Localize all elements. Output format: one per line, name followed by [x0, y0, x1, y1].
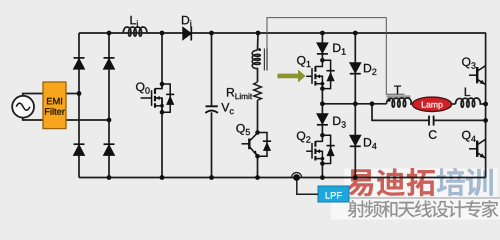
- label C: [429, 130, 437, 139]
- label Vc: [221, 103, 233, 114]
- wire right bridge branch: [108, 33, 110, 178]
- lamp: [412, 97, 451, 111]
- wire sense node to LPF: [297, 179, 318, 194]
- label D1: [333, 44, 345, 55]
- resistor RLimit: [254, 82, 262, 100]
- label Q3: [462, 57, 476, 68]
- label RLimit: [227, 88, 252, 99]
- capacitor C: [429, 116, 434, 126]
- wire AC to EMI top: [23, 94, 43, 96]
- wire D1 branch: [321, 33, 323, 60]
- MOSFET Q2: [306, 133, 335, 166]
- wire Q0 branch lower: [161, 98, 163, 178]
- wire top rail: [79, 32, 486, 34]
- wire AC to EMI bottom: [23, 118, 43, 120]
- label Q2: [297, 131, 310, 142]
- transistor Q4: [469, 139, 486, 158]
- wire Q0 branch upper: [161, 33, 163, 89]
- feedback winding: [252, 48, 261, 68]
- MOSFET Q0: [141, 82, 175, 115]
- wire resistor to Q5: [257, 100, 259, 132]
- wire lamp to L: [452, 103, 456, 105]
- IGBT Q5: [242, 130, 272, 158]
- label D2: [364, 64, 376, 75]
- transistor Q3: [469, 66, 486, 85]
- wire D3 branch: [321, 104, 323, 135]
- label Li: [131, 16, 138, 27]
- diode D3: [317, 114, 328, 125]
- label Q5: [236, 124, 250, 135]
- transformer core lines: [263, 49, 265, 71]
- watermark backdrop: [331, 169, 500, 220]
- LPF block: [318, 186, 349, 202]
- wire Q5 emitter to bottom rail: [257, 156, 259, 177]
- diode D1: [317, 43, 328, 54]
- wire C branch left: [372, 104, 429, 121]
- wire right bus: [485, 33, 487, 178]
- aux winding wire loop: [267, 18, 405, 95]
- diode D2: [350, 63, 361, 74]
- wire D4 branch: [354, 104, 356, 178]
- wire mid rail: [322, 103, 386, 105]
- wire C branch right: [434, 119, 486, 121]
- wire left bridge branch: [78, 33, 80, 178]
- diode Di: [183, 27, 192, 41]
- wire Q1 source to mid rail: [321, 89, 323, 104]
- diode D4: [350, 135, 361, 146]
- watermark logo: [346, 168, 492, 197]
- wire winding to resistor: [257, 68, 259, 82]
- bridge diode top-right: [104, 58, 115, 69]
- transformer T: [387, 97, 412, 108]
- bridge diode bottom-left: [74, 144, 85, 155]
- label L: [465, 88, 470, 96]
- capacitor Vc: [205, 106, 218, 113]
- label D3: [333, 117, 345, 128]
- inductor L: [456, 98, 481, 107]
- wire R branch top: [257, 33, 260, 50]
- current sense node: [292, 173, 302, 181]
- bridge diode top-left: [74, 58, 85, 69]
- wire L to bus: [480, 103, 486, 105]
- label Q4: [462, 131, 476, 142]
- wire Q2 source to bottom rail: [321, 164, 323, 178]
- label Q1: [297, 56, 310, 67]
- gate drive green arrow: [278, 70, 306, 83]
- EMI filter block: [43, 82, 66, 129]
- AC source: [12, 96, 34, 118]
- label D4: [364, 138, 377, 149]
- wire Vc branch upper: [211, 33, 213, 106]
- wire EMI to bridge top: [66, 93, 79, 95]
- inductor Li: [123, 27, 147, 36]
- label Q0: [136, 82, 150, 93]
- wire EMI to bridge bottom: [66, 119, 109, 121]
- wire D2 branch: [354, 33, 356, 104]
- MOSFET Q1: [306, 58, 335, 91]
- watermark slogan: [348, 200, 499, 218]
- label Di: [182, 16, 191, 27]
- bridge diode bottom-right: [104, 144, 115, 155]
- wire Vc branch lower: [211, 112, 213, 177]
- label T: [394, 86, 401, 94]
- wire bottom rail: [79, 177, 486, 179]
- wire T winding to lamp: [410, 103, 413, 105]
